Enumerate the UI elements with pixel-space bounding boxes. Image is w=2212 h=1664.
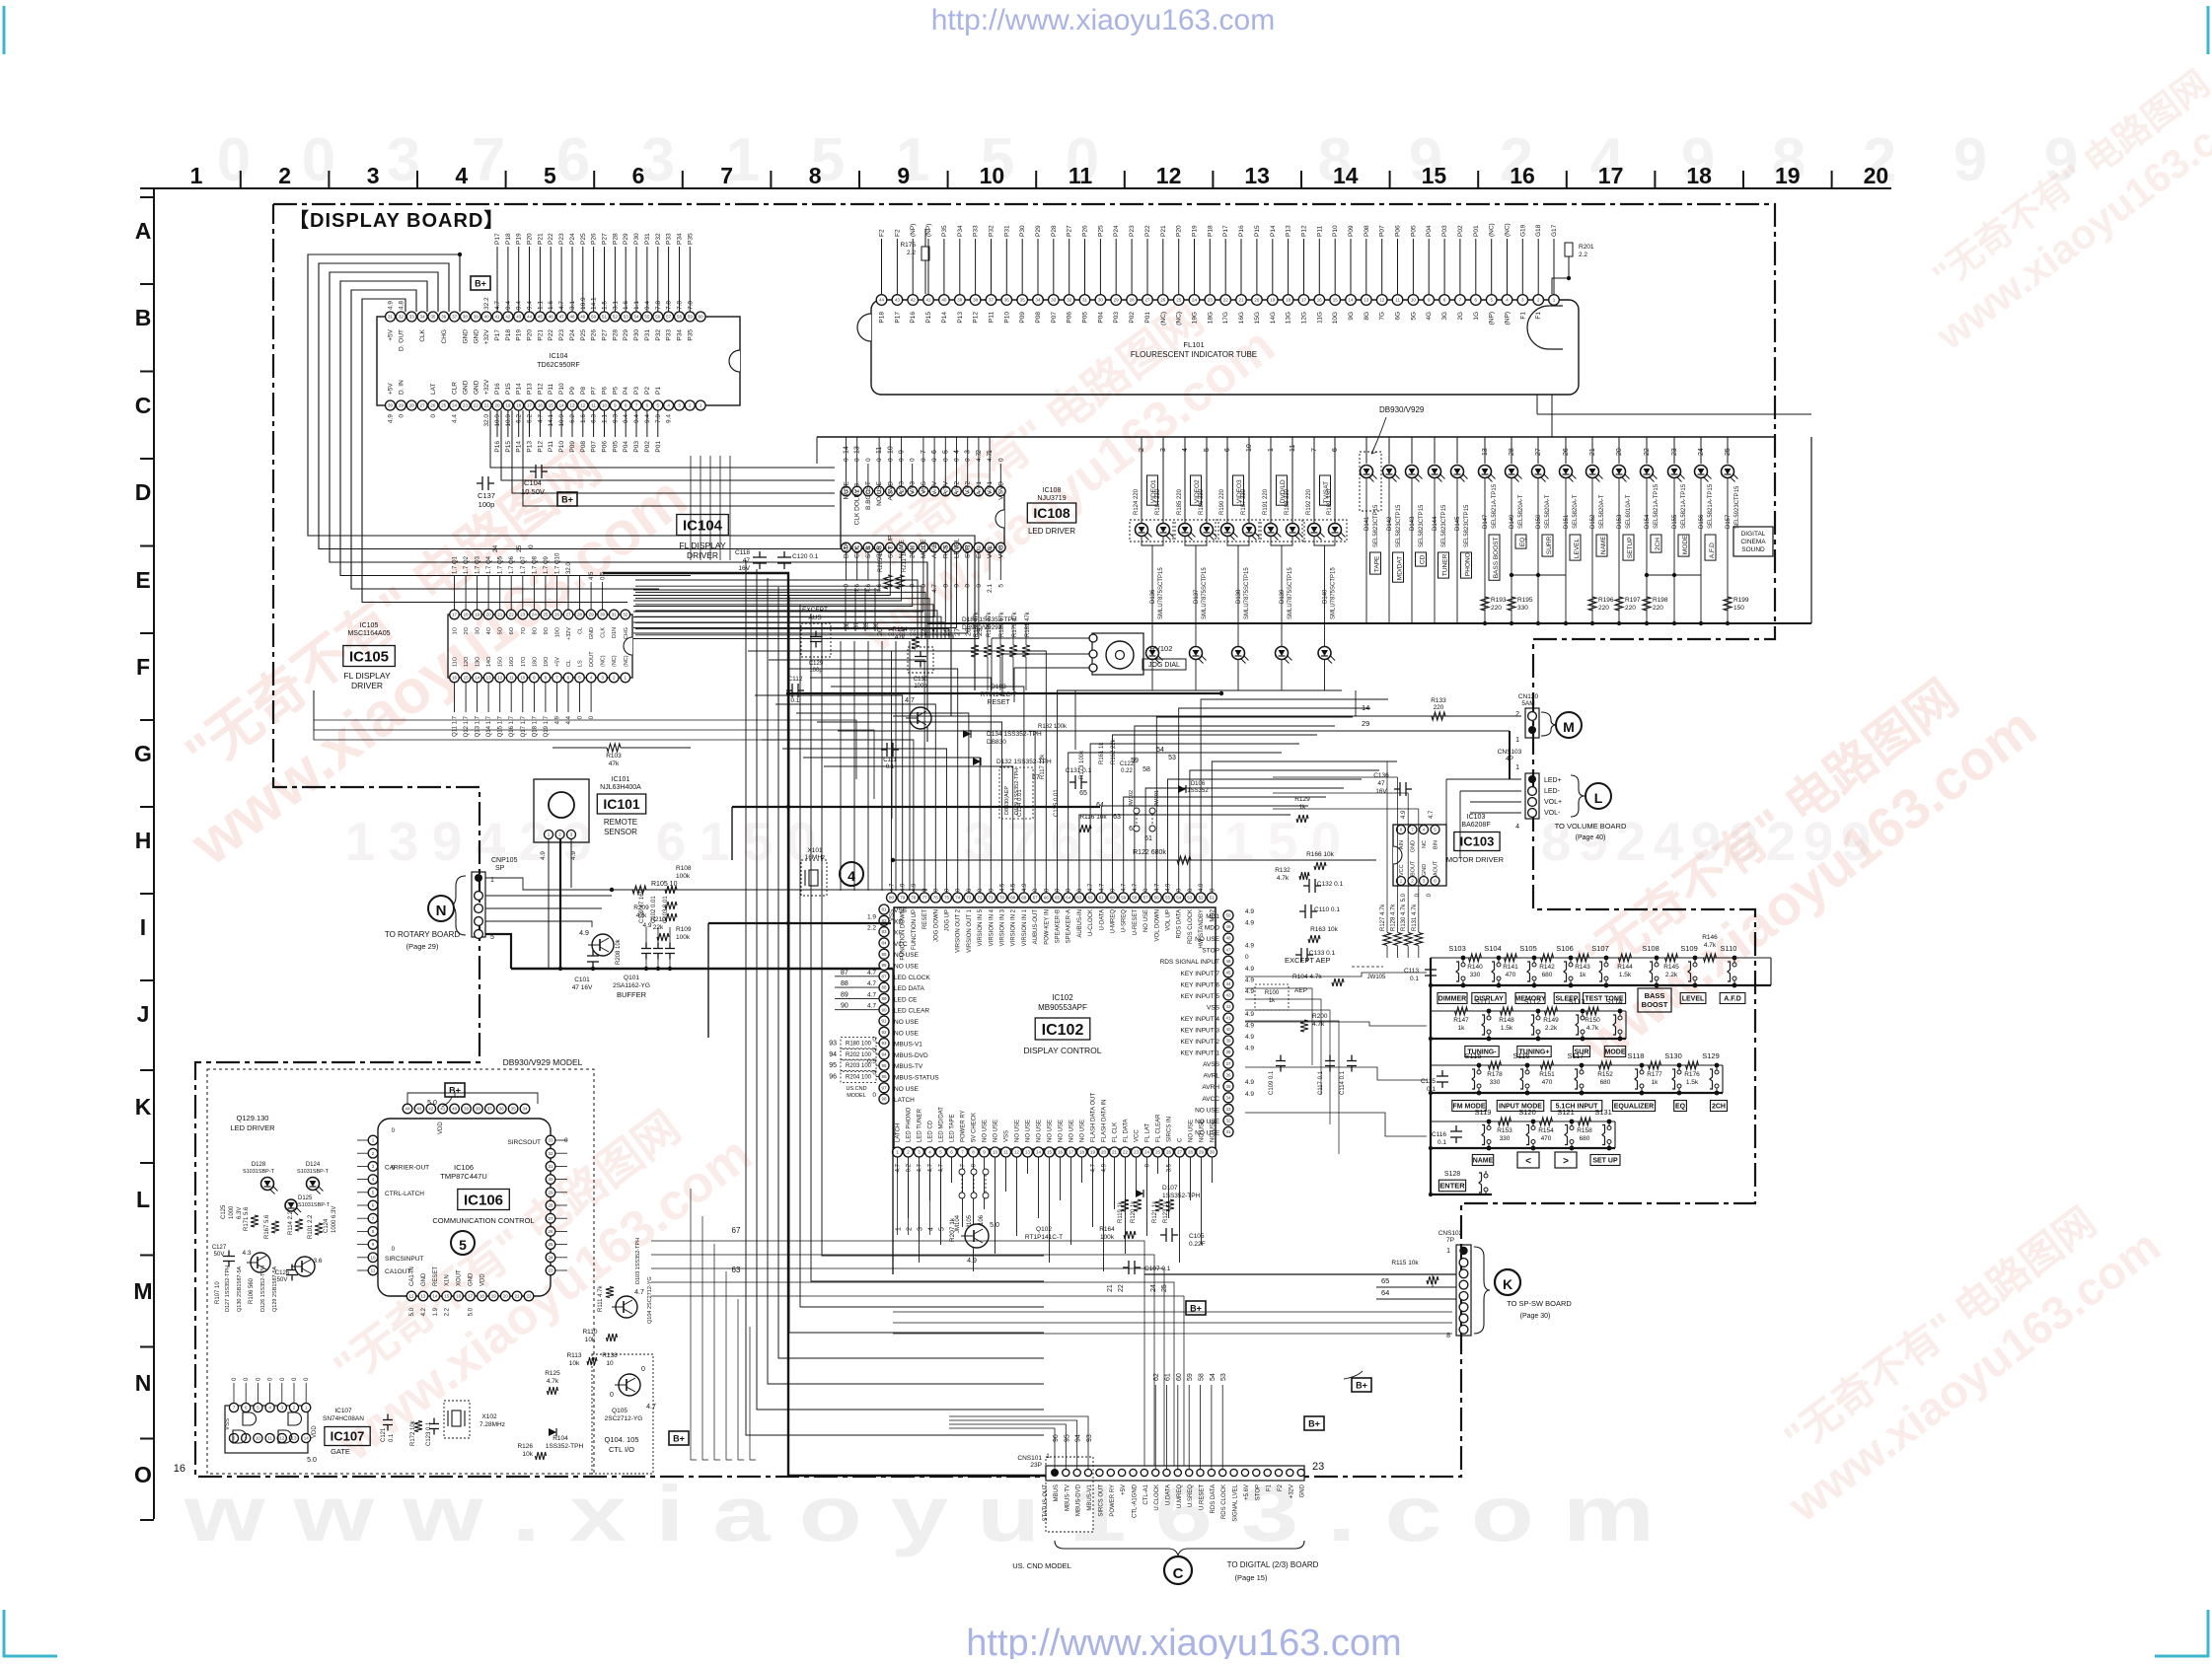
bottom transistor parts labels — [215, 1266, 278, 1312]
IC108 top wire fan with numbers — [844, 437, 995, 464]
svg-text:S1031SBP-T: S1031SBP-T — [243, 1169, 275, 1175]
svg-text:SEL5823CTP15: SEL5823CTP15 — [1396, 504, 1402, 547]
svg-text:22: 22 — [1123, 1150, 1129, 1155]
LED indicator pair DVD/LD — [1259, 437, 1304, 690]
svg-text:R199: R199 — [1733, 597, 1749, 604]
svg-text:w w w . x i a o y u 1 6 3 . c: w w w . x i a o y u 1 6 3 . c o m — [184, 1470, 1655, 1557]
svg-text:JOG DOWN: JOG DOWN — [933, 909, 939, 942]
svg-text:P15: P15 — [1254, 225, 1261, 237]
svg-text:+32V: +32V — [566, 627, 572, 640]
svg-text:R164: R164 — [1099, 1226, 1115, 1233]
svg-text:P32: P32 — [655, 233, 662, 245]
svg-text:R117 22k: R117 22k — [1040, 754, 1046, 779]
svg-text:DB830: DB830 — [987, 739, 1006, 746]
svg-text:17: 17 — [452, 613, 458, 617]
svg-text:P20: P20 — [527, 233, 534, 245]
svg-text:V.TV: V.TV — [931, 480, 938, 495]
svg-text:TMP87C447U: TMP87C447U — [440, 1172, 487, 1181]
svg-text:SPEAKER-B: SPEAKER-B — [1056, 909, 1062, 943]
svg-text:(NP): (NP) — [1505, 312, 1512, 325]
svg-text:60: 60 — [1176, 1373, 1183, 1381]
svg-text:P35: P35 — [941, 225, 948, 237]
svg-text:CA1OUT: CA1OUT — [385, 1268, 410, 1275]
svg-text:GND: GND — [462, 329, 469, 344]
svg-text:CLK: CLK — [854, 545, 861, 558]
svg-text:R115 10k: R115 10k — [1391, 1260, 1419, 1266]
svg-text:SEL5821A-TP15: SEL5821A-TP15 — [1708, 483, 1714, 529]
svg-text:7: 7 — [1007, 811, 1038, 872]
svg-text:NO USE: NO USE — [1015, 1120, 1021, 1142]
svg-text:D156: D156 — [1699, 514, 1705, 529]
svg-text:+5V: +5V — [555, 657, 561, 667]
svg-text:S128: S128 — [1444, 1171, 1460, 1178]
svg-text:TV/SAT: TV/SAT — [1323, 481, 1330, 503]
svg-text:LS: LS — [578, 660, 584, 667]
svg-text:R208 10k: R208 10k — [616, 938, 622, 965]
svg-text:CD: CD — [1420, 554, 1427, 564]
svg-text:40: 40 — [452, 1107, 458, 1112]
svg-text:9: 9 — [1579, 811, 1609, 872]
wires FL F1 F2 vertical — [1537, 395, 1811, 437]
svg-text:15: 15 — [464, 676, 470, 681]
svg-text:SEL5821A-TP15: SEL5821A-TP15 — [1492, 483, 1498, 529]
svg-text:S1031SBP-T: S1031SBP-T — [298, 1202, 331, 1208]
R200 4.7k — [1300, 1013, 1328, 1032]
svg-text:2SC2712-YG: 2SC2712-YG — [605, 1415, 643, 1422]
svg-text:R111 4.7k: R111 4.7k — [598, 1285, 604, 1312]
svg-text:LAT: LAT — [430, 384, 437, 395]
svg-text:CLK: CLK — [601, 627, 607, 638]
svg-text:7: 7 — [720, 163, 733, 188]
svg-text:51: 51 — [602, 315, 608, 320]
resistor column R127 R128 R130 R131 4.7k — [1380, 904, 1423, 958]
thick wire to IC102 pin 80 — [708, 921, 891, 1038]
svg-text:R152: R152 — [1597, 1071, 1613, 1078]
svg-text:1.7 Q5: 1.7 Q5 — [498, 555, 504, 574]
svg-text:38: 38 — [973, 298, 979, 303]
IC106 communication control — [368, 1104, 568, 1316]
svg-text:TAPE: TAPE — [1374, 555, 1381, 572]
svg-text:(NP): (NP) — [910, 224, 917, 237]
svg-text:35: 35 — [1020, 298, 1026, 303]
svg-text:P16: P16 — [494, 383, 501, 395]
svg-text:TD62C950RF: TD62C950RF — [537, 362, 579, 369]
capacitor C112 — [786, 676, 804, 704]
svg-text:C: C — [1178, 1137, 1184, 1142]
svg-text:28: 28 — [1509, 448, 1515, 456]
svg-text:S117: S117 — [1568, 1051, 1585, 1060]
svg-text:R148: R148 — [1499, 1017, 1514, 1024]
svg-text:P26: P26 — [591, 233, 598, 245]
svg-text:IC106: IC106 — [464, 1192, 503, 1208]
IC102 left pin column — [867, 904, 939, 1104]
svg-text:12: 12 — [497, 676, 503, 681]
svg-text:4: 4 — [1182, 448, 1189, 452]
svg-text:4.9: 4.9 — [901, 883, 907, 892]
svg-text:P23: P23 — [1129, 225, 1136, 237]
svg-text:21: 21 — [1107, 1284, 1114, 1292]
svg-text:R140: R140 — [1467, 964, 1483, 971]
svg-text:5: 5 — [1204, 448, 1211, 452]
svg-text:I: I — [140, 914, 146, 940]
svg-text:S107: S107 — [1591, 944, 1609, 953]
watermark pink diagonal top-middle — [814, 268, 1286, 664]
svg-text:R101 2.2: R101 2.2 — [308, 1214, 314, 1239]
svg-text:Q104 2SC2712-YG: Q104 2SC2712-YG — [647, 1276, 653, 1324]
svg-text:M: M — [1563, 719, 1575, 735]
svg-text:SUR: SUR — [965, 544, 972, 558]
svg-text:22: 22 — [1223, 298, 1229, 303]
svg-text:34: 34 — [1035, 298, 1041, 303]
svg-text:18: 18 — [1079, 1150, 1085, 1155]
resistor column R136-R181 47k — [971, 611, 1031, 690]
transistor Q101 buffer — [572, 930, 650, 999]
svg-text:http://www.xiaoyu163.com: http://www.xiaoyu163.com — [931, 4, 1276, 36]
circled K to SP-SW board — [1495, 1269, 1572, 1320]
svg-text:SEL5923CTP15: SEL5923CTP15 — [1734, 485, 1740, 529]
svg-text:NO USE: NO USE — [1211, 1120, 1217, 1142]
svg-text:36: 36 — [1004, 298, 1010, 303]
svg-text:J: J — [137, 1001, 150, 1027]
svg-text:4.7: 4.7 — [939, 1163, 945, 1172]
svg-text:26: 26 — [554, 613, 560, 617]
circled N to rotary board — [385, 896, 461, 951]
svg-text:0: 0 — [899, 458, 906, 462]
svg-text:5: 5 — [544, 163, 556, 188]
svg-text:IC103: IC103 — [1460, 834, 1495, 849]
svg-text:20: 20 — [486, 613, 492, 617]
svg-text:71: 71 — [989, 896, 995, 901]
IC104 FL display driver — [377, 297, 740, 453]
svg-text:27: 27 — [1177, 1150, 1183, 1155]
svg-text:RDS DATA: RDS DATA — [1211, 1484, 1217, 1513]
capacitors C119 C102 C103 — [587, 889, 675, 969]
svg-text:R178: R178 — [1487, 1071, 1503, 1078]
svg-text:VSS: VSS — [1207, 1004, 1220, 1011]
svg-text:58: 58 — [1199, 1373, 1206, 1381]
svg-text:3: 3 — [387, 126, 420, 194]
svg-text:0: 0 — [430, 414, 437, 418]
wire nest left of IC104 — [308, 253, 975, 742]
svg-text:P04: P04 — [623, 441, 629, 453]
svg-text:VDD: VDD — [997, 544, 1004, 558]
svg-text:P5: P5 — [612, 387, 619, 395]
LED D149 EQ — [1506, 437, 1533, 625]
svg-text:VDD: VDD — [479, 1273, 485, 1286]
IC108 reference label box — [1027, 487, 1075, 536]
capacitors C131 C134 C135 row — [1017, 767, 1107, 832]
svg-text:P28: P28 — [1051, 225, 1058, 237]
svg-text:C115: C115 — [1421, 1078, 1436, 1085]
svg-text:4: 4 — [954, 450, 961, 454]
svg-text:LED DRIVER: LED DRIVER — [230, 1123, 275, 1132]
svg-text:CN120: CN120 — [1518, 693, 1539, 700]
svg-text:13: 13 — [1364, 298, 1369, 303]
svg-text:77: 77 — [922, 896, 928, 901]
svg-text:38: 38 — [476, 1107, 481, 1112]
svg-text:US. CND MODEL: US. CND MODEL — [1012, 1561, 1071, 1570]
wires below IC105 to IC101 region — [314, 690, 892, 819]
svg-text:S103: S103 — [1448, 944, 1466, 953]
C133 0.1 — [1295, 948, 1336, 962]
svg-text:MBUS-V1: MBUS-V1 — [1087, 1483, 1093, 1510]
svg-text:AVCC: AVCC — [1202, 1096, 1219, 1103]
svg-text:R163 10k: R163 10k — [1310, 926, 1339, 933]
svg-text:10: 10 — [1246, 444, 1253, 452]
transistors Q127 Q128 LED drivers — [242, 1250, 322, 1276]
diode D185 labels — [962, 616, 1017, 631]
svg-text:14: 14 — [1362, 703, 1369, 712]
svg-text:P30: P30 — [633, 329, 640, 341]
svg-text:P6: P6 — [602, 387, 609, 395]
IC106 top pin bus — [407, 1093, 538, 1104]
svg-text:P2: P2 — [644, 387, 651, 395]
svg-text:1.5k: 1.5k — [1501, 1025, 1513, 1032]
svg-text:MODE: MODE — [1682, 535, 1689, 554]
svg-text:D147: D147 — [1483, 514, 1489, 529]
svg-text:Q11 1.7: Q11 1.7 — [453, 715, 459, 737]
svg-text:23: 23 — [548, 1268, 553, 1273]
svg-text:O: O — [134, 1462, 152, 1487]
svg-text:4.7: 4.7 — [867, 980, 876, 987]
svg-text:P30: P30 — [633, 233, 640, 245]
svg-text:R116 10k: R116 10k — [1079, 814, 1107, 821]
svg-text:5V CHECK: 5V CHECK — [972, 1113, 978, 1142]
svg-text:43: 43 — [416, 1107, 422, 1112]
svg-text:27: 27 — [565, 613, 571, 617]
svg-text:C111: C111 — [883, 758, 897, 763]
svg-text:R177: R177 — [1647, 1071, 1662, 1078]
svg-text:39: 39 — [1225, 1039, 1231, 1044]
svg-text:3: 3 — [1160, 448, 1167, 452]
svg-text:65: 65 — [1055, 896, 1061, 901]
svg-text:CTL-A1GND: CTL-A1GND — [1133, 1483, 1139, 1518]
svg-text:MBUS-DVD: MBUS-DVD — [1076, 1483, 1082, 1516]
svg-text:P04: P04 — [1097, 312, 1104, 324]
svg-text:P06: P06 — [1067, 312, 1073, 324]
svg-text:26: 26 — [1166, 1150, 1172, 1155]
svg-text:GND: GND — [462, 380, 469, 395]
watermark giant gray bottom text — [184, 1470, 1655, 1557]
svg-text:5AM: 5AM — [1521, 700, 1534, 707]
svg-text:16: 16 — [1510, 163, 1535, 188]
thick power bus center — [603, 573, 1046, 1476]
svg-text:1.7 Q3: 1.7 Q3 — [476, 555, 481, 574]
svg-text:85: 85 — [881, 952, 887, 957]
svg-text:23: 23 — [520, 613, 526, 617]
LED D155 MODE — [1668, 437, 1690, 625]
svg-text:0.22F: 0.22F — [1189, 1241, 1206, 1248]
svg-text:84: 84 — [881, 941, 887, 946]
svg-text:DVD/LD: DVD/LD — [1280, 479, 1287, 503]
svg-text:P28: P28 — [612, 233, 619, 245]
svg-text:MUTE: MUTE — [844, 480, 850, 499]
svg-text:B.BOOST: B.BOOST — [865, 481, 872, 510]
svg-text:4.7: 4.7 — [867, 991, 876, 998]
svg-text:(Page 40): (Page 40) — [1576, 834, 1606, 841]
svg-text:4.5: 4.5 — [1011, 883, 1017, 892]
svg-text:1.5k: 1.5k — [1619, 972, 1632, 978]
svg-text:P08: P08 — [1364, 225, 1370, 237]
svg-text:72: 72 — [978, 896, 984, 901]
svg-text:4.9: 4.9 — [1401, 810, 1407, 819]
svg-text:VOL: VOL — [987, 545, 994, 558]
svg-text:Q104. 105: Q104. 105 — [604, 1435, 638, 1444]
svg-text:S110: S110 — [1721, 944, 1737, 953]
svg-text:61: 61 — [1099, 896, 1105, 901]
IC107 gate — [225, 1403, 318, 1453]
svg-text:54: 54 — [1156, 747, 1164, 754]
svg-text:4.2: 4.2 — [421, 1307, 427, 1316]
svg-text:TO SP-SW BOARD: TO SP-SW BOARD — [1507, 1299, 1572, 1308]
svg-text:4.9: 4.9 — [1245, 943, 1254, 950]
svg-text:63: 63 — [1076, 896, 1082, 901]
svg-text:37: 37 — [452, 315, 458, 320]
svg-text:VIRSION IN 3: VIRSION IN 3 — [1000, 908, 1006, 946]
svg-text:R211 1k: R211 1k — [902, 549, 908, 572]
svg-text:29: 29 — [399, 403, 405, 408]
svg-text:35: 35 — [430, 315, 436, 320]
svg-text:16G: 16G — [1238, 312, 1245, 324]
svg-text:1.9: 1.9 — [867, 913, 876, 920]
svg-text:66: 66 — [1044, 896, 1050, 901]
board section label 16 — [174, 1463, 185, 1475]
svg-text:D136: D136 — [1150, 589, 1156, 604]
svg-text:P20: P20 — [1176, 225, 1183, 237]
svg-text:R205 1k: R205 1k — [878, 549, 884, 572]
svg-text:SEL5820A-T: SEL5820A-T — [1599, 494, 1605, 529]
svg-text:7: 7 — [472, 126, 505, 194]
svg-text:47: 47 — [743, 557, 751, 564]
svg-text:JW102: JW102 — [1129, 790, 1135, 807]
svg-text:75: 75 — [944, 896, 950, 901]
svg-text:P13: P13 — [1286, 225, 1292, 237]
svg-text:1: 1 — [1138, 811, 1168, 872]
svg-text:D127 1SS352-TPH: D127 1SS352-TPH — [225, 1266, 231, 1312]
svg-text:59: 59 — [1121, 896, 1127, 901]
svg-text:4P: 4P — [1506, 756, 1513, 762]
svg-text:R108: R108 — [676, 865, 692, 872]
svg-text:F: F — [136, 654, 150, 680]
wire labels 67 63 — [732, 1226, 741, 1274]
svg-text:94: 94 — [881, 1052, 887, 1057]
svg-text:Q17 1.7: Q17 1.7 — [521, 715, 527, 737]
svg-text:Q16 1.7: Q16 1.7 — [509, 715, 515, 737]
svg-text:R138: R138 — [602, 1352, 618, 1359]
svg-text:S119: S119 — [1475, 1108, 1492, 1117]
svg-text:Q19 1.7: Q19 1.7 — [544, 715, 550, 737]
svg-text:32.0: 32.0 — [483, 414, 490, 427]
svg-text:4.9: 4.9 — [1166, 883, 1172, 892]
svg-text:1: 1 — [1515, 764, 1519, 771]
svg-text:LED TAPE: LED TAPE — [950, 1115, 956, 1142]
svg-text:22: 22 — [1644, 448, 1651, 456]
svg-text:BUFFER: BUFFER — [617, 990, 647, 999]
svg-text:STOP: STOP — [1202, 948, 1219, 955]
svg-text:K: K — [135, 1094, 152, 1120]
LED indicator pair VIDEO2 — [1173, 437, 1218, 690]
svg-text:B+: B+ — [561, 495, 573, 505]
svg-text:P27: P27 — [1067, 225, 1073, 237]
svg-text:DB930/V929X: DB930/V929X — [962, 624, 1003, 631]
svg-text:42: 42 — [505, 315, 511, 320]
watermark ghost digits top row — [217, 126, 2078, 194]
svg-text:X102: X102 — [481, 1413, 497, 1420]
svg-text:1SS352: 1SS352 — [1187, 788, 1209, 794]
capacitor C118 C120 — [735, 549, 819, 572]
svg-text:P19: P19 — [516, 329, 523, 341]
svg-text:P29: P29 — [623, 233, 629, 245]
svg-text:(NC): (NC) — [1489, 223, 1496, 237]
svg-text:CTL I/O: CTL I/O — [609, 1445, 634, 1454]
svg-text:39: 39 — [957, 298, 963, 303]
svg-text:7G: 7G — [1379, 312, 1386, 321]
svg-text:95: 95 — [881, 1063, 887, 1068]
svg-text:U-RESET: U-RESET — [1133, 909, 1139, 936]
wires bottom center horizontals — [691, 1189, 756, 1460]
svg-text:0.1: 0.1 — [790, 697, 799, 704]
svg-text:4.9: 4.9 — [570, 851, 577, 860]
svg-text:R129: R129 — [1294, 796, 1310, 803]
svg-text:4: 4 — [928, 1227, 935, 1231]
svg-text:65: 65 — [1079, 790, 1087, 797]
svg-text:KEY INPUT 4: KEY INPUT 4 — [1181, 1016, 1220, 1023]
svg-text:23: 23 — [1312, 1461, 1324, 1473]
capacitor C137 — [477, 476, 495, 509]
svg-text:VIRSION IN 4: VIRSION IN 4 — [989, 908, 995, 946]
capacitor C104 — [521, 465, 548, 496]
R209 R210 resistors — [633, 904, 669, 941]
svg-text:44: 44 — [879, 298, 885, 303]
svg-text:R166 10k: R166 10k — [1306, 851, 1335, 858]
svg-text:C119 47 16V: C119 47 16V — [639, 889, 645, 923]
svg-text:B: B — [135, 305, 152, 330]
svg-text:P10: P10 — [1332, 225, 1339, 237]
svg-text:G19: G19 — [1519, 224, 1526, 237]
svg-text:36: 36 — [441, 315, 447, 320]
svg-text:31: 31 — [388, 315, 394, 320]
LED group bus line top — [817, 437, 1776, 464]
svg-text:4.7k: 4.7k — [547, 1378, 559, 1385]
IC102 bottom fan wires — [898, 1157, 1213, 1271]
svg-text:60: 60 — [1110, 896, 1116, 901]
svg-text:R171 5.6: R171 5.6 — [244, 1206, 250, 1231]
svg-text:100k: 100k — [676, 934, 691, 941]
svg-text:50V: 50V — [214, 1252, 225, 1258]
svg-text:GND: GND — [421, 1272, 427, 1286]
svg-text:3: 3 — [641, 126, 675, 194]
svg-text:11: 11 — [1395, 298, 1400, 303]
svg-text:10: 10 — [520, 676, 526, 681]
svg-text:(NC): (NC) — [624, 655, 629, 667]
wires IC104 bottom to IC108 region — [490, 410, 835, 552]
svg-text:87: 87 — [881, 974, 887, 978]
svg-text:AUBUS-IN: AUBUS-IN — [1077, 909, 1083, 938]
svg-text:4.7: 4.7 — [890, 883, 896, 892]
svg-text:79: 79 — [900, 896, 906, 901]
svg-text:29: 29 — [589, 613, 595, 617]
svg-text:6: 6 — [632, 163, 645, 188]
svg-text:16: 16 — [1058, 1150, 1064, 1155]
svg-text:10 50V: 10 50V — [521, 487, 545, 496]
svg-text:P02: P02 — [644, 441, 651, 453]
svg-text:FL DISPLAY: FL DISPLAY — [343, 671, 391, 681]
svg-text:P15: P15 — [505, 441, 512, 453]
svg-text:24: 24 — [1144, 1150, 1150, 1155]
svg-text:0: 0 — [910, 458, 917, 462]
svg-text:32: 32 — [623, 613, 628, 617]
IC102 bottom resistors R119 R120 R121 R123 — [1107, 1199, 1174, 1292]
